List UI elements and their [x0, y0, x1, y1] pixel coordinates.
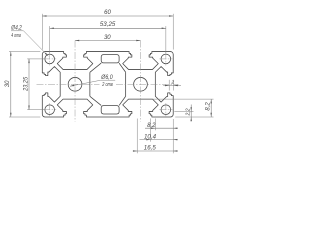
dimension 23,25 — [28, 59, 30, 110]
dimension 8,2 bottom — [145, 127, 178, 129]
svg-text:60: 60 — [104, 10, 111, 16]
centerlines hole D4.2 top-right — [159, 58, 172, 60]
mid web edge 4 — [119, 96, 126, 105]
dimension 2 lip — [168, 80, 170, 91]
hole D6 left — [68, 77, 82, 91]
dimension 60 — [42, 15, 173, 17]
leader line D6,0 — [70, 80, 101, 86]
svg-text:30: 30 — [104, 35, 111, 41]
mid web edge 1 — [90, 63, 101, 72]
svg-text:30: 30 — [5, 80, 11, 87]
svg-text:8,2: 8,2 — [147, 123, 156, 129]
svg-text:16,5: 16,5 — [144, 145, 157, 151]
svg-text:23,25: 23,25 — [24, 76, 30, 92]
hole D4.2 bottom-right — [161, 105, 171, 115]
vertical centerline right cell — [139, 41, 141, 122]
extension lines right — [152, 98, 213, 100]
centerlines hole D4.2 bottom-left — [43, 109, 56, 111]
mid web edge 2 — [119, 63, 126, 72]
profile outline with T-slots — [42, 52, 173, 117]
hole D4.2 bottom-left — [45, 105, 55, 115]
svg-text:2: 2 — [170, 79, 174, 84]
dimension 30 top — [75, 40, 140, 42]
core flat left cell — [89, 72, 91, 96]
extension lines top — [41, 14, 43, 50]
hole D4.2 top-right — [161, 54, 171, 64]
leader line D4,2 — [24, 31, 49, 56]
core flat right cell — [125, 72, 127, 96]
hole D4.2 top-left — [45, 54, 55, 64]
mid cavity bottom — [101, 106, 119, 114]
dimension 10,4 — [140, 139, 178, 141]
svg-text:8,2: 8,2 — [206, 102, 212, 111]
dimension 30 left — [10, 52, 12, 117]
extension lines left — [9, 51, 40, 53]
dimension 16,5 — [133, 150, 178, 152]
horizontal centerline — [37, 83, 100, 85]
svg-text:53,25: 53,25 — [100, 22, 116, 28]
svg-text:Ø4,2: Ø4,2 — [10, 26, 22, 32]
svg-text:2,2: 2,2 — [185, 108, 191, 116]
svg-text:Ø6,0: Ø6,0 — [100, 75, 113, 81]
svg-text:4 отв: 4 отв — [11, 33, 21, 39]
hole D6 right — [134, 77, 148, 91]
extension lines bottom right — [172, 119, 174, 153]
centerlines hole D4.2 bottom-right — [159, 109, 172, 111]
dimension 53,25 — [50, 27, 166, 29]
dimension 2,2 right — [190, 104, 192, 119]
centerlines hole D4.2 top-left — [43, 58, 56, 60]
mid cavity top — [101, 55, 119, 63]
svg-text:2 отв: 2 отв — [102, 82, 113, 88]
dimension 8,2 right — [210, 99, 212, 117]
mid web edge 3 — [90, 96, 101, 105]
vertical centerline left cell — [74, 41, 76, 122]
svg-text:10,4: 10,4 — [144, 134, 157, 140]
